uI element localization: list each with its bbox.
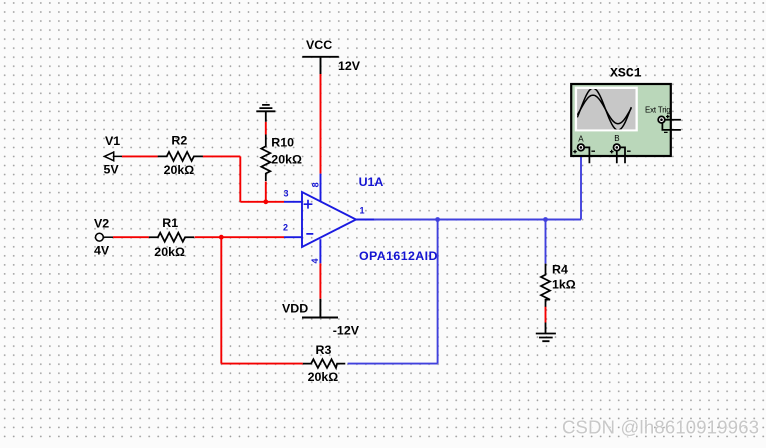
svg-text:20kΩ: 20kΩ [271, 153, 302, 167]
svg-text:4V: 4V [94, 244, 110, 258]
svg-text:20kΩ: 20kΩ [308, 370, 339, 384]
svg-text:20kΩ: 20kΩ [154, 245, 185, 259]
svg-text:B: B [614, 134, 619, 143]
svg-text:CSDN @lh8610919963: CSDN @lh8610919963 [562, 417, 759, 438]
svg-text:VCC: VCC [306, 38, 332, 52]
svg-text:Ext Trig: Ext Trig [645, 105, 671, 114]
svg-text:OPA1612AID: OPA1612AID [359, 249, 438, 263]
svg-text:2: 2 [283, 223, 288, 233]
svg-text:XSC1: XSC1 [610, 66, 642, 81]
svg-text:U1A: U1A [359, 175, 384, 189]
svg-text:A: A [578, 134, 584, 143]
svg-text:12V: 12V [338, 59, 361, 73]
svg-text:V1: V1 [105, 134, 120, 148]
svg-text:R2: R2 [171, 134, 187, 148]
svg-text:8: 8 [311, 182, 321, 187]
svg-text:3: 3 [283, 189, 288, 199]
svg-text:1: 1 [360, 206, 365, 216]
svg-text:1kΩ: 1kΩ [552, 278, 576, 292]
svg-text:-12V: -12V [333, 324, 360, 338]
svg-text:R4: R4 [552, 263, 568, 277]
svg-text:V2: V2 [94, 217, 109, 231]
svg-text:R3: R3 [316, 343, 332, 357]
svg-text:4: 4 [310, 258, 320, 263]
svg-text:R10: R10 [271, 136, 294, 150]
svg-text:20kΩ: 20kΩ [164, 163, 195, 177]
svg-text:VDD: VDD [282, 302, 308, 316]
svg-text:5V: 5V [104, 163, 120, 177]
svg-text:R1: R1 [162, 216, 178, 230]
